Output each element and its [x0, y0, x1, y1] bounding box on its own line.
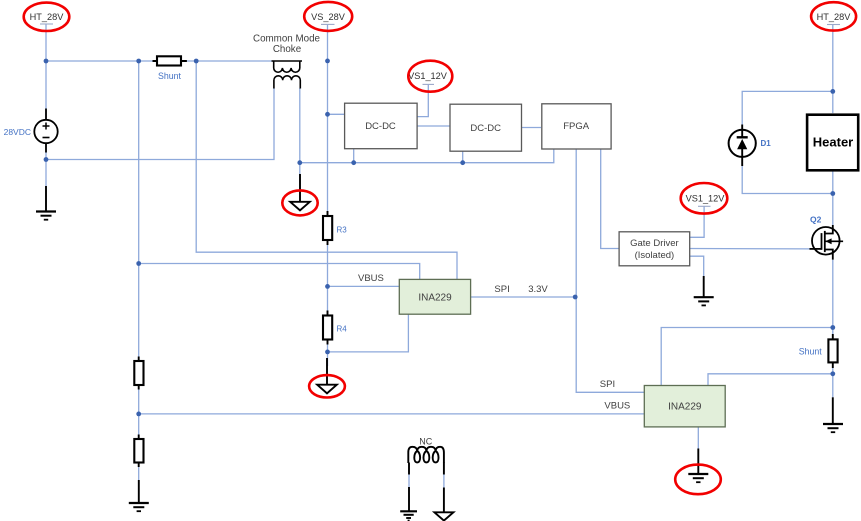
junction node R4 bottom: [325, 350, 330, 355]
junction node VS_28V DC-DC1 branch: [325, 112, 330, 117]
wire source top lead: [45, 61, 47, 120]
source V1 28VDC: [34, 109, 57, 153]
wire source bottom lead: [45, 143, 47, 186]
svg-text:DC-DC: DC-DC: [365, 121, 396, 132]
svg-text:Gate Driver: Gate Driver: [630, 238, 679, 249]
junction node shunt2 bottom: [830, 371, 835, 376]
wire heater bottom to Q2 drain: [832, 171, 834, 225]
ground G3 gate driver: [694, 297, 714, 305]
wire shunt2-minus branch to INA229-2 top pin2: [708, 374, 833, 386]
wire below shunt2: [832, 368, 834, 397]
wire INA229-1 SPI out to FPGA line: [471, 296, 576, 298]
junction node top-left HT_28V: [44, 59, 49, 64]
junction node shunt2 top: [830, 325, 835, 330]
junction node source return: [44, 157, 49, 162]
svg-text:(Isolated): (Isolated): [635, 250, 675, 261]
wire below R4: [327, 345, 329, 367]
junction node x139 sense branch: [136, 261, 141, 266]
wire VS1_12V-2 drop to gate driver: [690, 206, 704, 237]
junction node DC-DC2 0V: [460, 160, 465, 165]
wire D1 branch bottom: [742, 157, 833, 194]
box FPGA: [542, 104, 611, 149]
label Common Mode Choke: [253, 33, 321, 55]
ground T1 choke (triangle): [290, 202, 310, 211]
svg-text:3.3V: 3.3V: [528, 284, 548, 295]
wire left shunt-minus rail x139: [138, 61, 140, 357]
junction node choke-right 0V: [297, 160, 302, 165]
svg-text:D1: D1: [761, 139, 772, 148]
wire top 28V rail left segment: [46, 60, 153, 62]
junction node shunt left: [136, 59, 141, 64]
svg-text:28VDC: 28VDC: [4, 127, 31, 137]
junction node VBUS1 branch: [325, 284, 330, 289]
svg-text:VS1_12V: VS1_12V: [686, 194, 726, 204]
IC INA229 #2: [644, 386, 725, 427]
transistor Q2 MOSFET: [810, 225, 844, 260]
svg-text:R4: R4: [337, 325, 348, 334]
wire DC-DC1 to DC-DC2: [417, 125, 450, 127]
wire HT_28V drop to top rail: [45, 24, 47, 61]
resistor shunt1 (top): [153, 56, 187, 65]
wire VS1_12V drop to DC-DC1: [416, 84, 429, 116]
wire INA229-2 ground: [697, 427, 699, 450]
diode D1 (current regulator): [729, 125, 756, 167]
wire Q2 source down: [832, 260, 834, 334]
wire R4 bottom to INA229 bottom pin: [328, 314, 409, 352]
wire DC-DC1 bottom stub: [353, 149, 355, 163]
ground G2 left bottom: [129, 503, 149, 511]
terminal VS1_12V lower: [681, 183, 728, 214]
wire left ground lead black: [138, 480, 140, 503]
box DC-DC 2: [450, 104, 522, 151]
box DC-DC 1: [345, 103, 418, 149]
ground G1 source: [36, 212, 56, 220]
wire R4 ground lead black: [326, 358, 328, 385]
wire shunt-minus sense to INA229 top pin1: [139, 264, 420, 280]
terminal HT_28V left: [24, 3, 70, 31]
terminal HT_28V right: [811, 2, 856, 30]
svg-text:VS_28V: VS_28V: [311, 12, 346, 22]
wire choke bottom-right leg down: [299, 88, 301, 175]
wire HT_28V right drop: [832, 25, 834, 114]
svg-text:HT_28V: HT_28V: [30, 12, 65, 22]
svg-text:Shunt: Shunt: [799, 346, 823, 356]
svg-text:INA229: INA229: [668, 401, 702, 412]
svg-text:R3: R3: [337, 226, 348, 235]
wire gate driver ground: [690, 256, 704, 278]
resistor R4: [323, 311, 332, 345]
resistor left lower (unnamed): [134, 435, 143, 468]
wire DC-DC2 bottom stub: [462, 151, 464, 163]
wire gate driver to Q2 gate: [690, 248, 810, 250]
svg-text:VBUS: VBUS: [604, 401, 630, 412]
annotation red ellipse on T2: [309, 375, 345, 397]
wire R3 to R4 segment: [327, 245, 329, 311]
wire FPGA pin2 to gate driver: [601, 149, 619, 248]
wire NC left leg: [408, 463, 410, 512]
wire DC-DC2 to FPGA: [522, 127, 542, 129]
common mode choke: [272, 61, 303, 89]
junction node VBUS2 branch: [136, 412, 141, 417]
ground T3 NC right (triangle): [434, 512, 453, 520]
svg-text:NC: NC: [419, 436, 432, 446]
annotation red ellipse on G5: [675, 465, 721, 495]
annotation red ellipse on T1: [282, 190, 317, 215]
terminal VS_28V: [304, 2, 352, 31]
resistor left upper (unnamed): [134, 357, 143, 390]
svg-text:HT_28V: HT_28V: [817, 12, 852, 22]
svg-text:SPI: SPI: [494, 284, 509, 295]
wire below left resistor2: [138, 467, 140, 484]
junction node heater bottom D1: [830, 191, 835, 196]
wire shunt-plus rail x196 to INA229 top pin2: [196, 61, 457, 279]
box heater: [807, 115, 858, 171]
wire NC right leg: [443, 463, 445, 513]
svg-text:Choke: Choke: [273, 44, 302, 55]
ground G4 right: [823, 424, 843, 432]
junction node shunt right: [194, 59, 199, 64]
wire between left resistors: [138, 390, 140, 435]
wire INA229-2 ground lead black: [697, 449, 699, 474]
junction node SPI branch: [573, 295, 578, 300]
svg-text:VBUS: VBUS: [358, 273, 384, 284]
junction node DC-DC1 0V: [351, 160, 356, 165]
wire gate driver ground lead black: [703, 276, 705, 297]
wire top 28V rail right segment to choke: [187, 60, 274, 62]
svg-text:VS1_12V: VS1_12V: [408, 71, 448, 81]
wire source ground lead black: [45, 186, 47, 211]
wire FPGA pin1 down SPI to INA229-2: [576, 149, 644, 392]
inductor NC: [408, 447, 444, 463]
wire VBUS1 branch to INA229 left: [328, 285, 400, 287]
junction node VS_28V top rail: [325, 59, 330, 64]
ground G6 NC left: [400, 511, 417, 520]
wire shunt2-plus branch to INA229-2 top pin1: [661, 328, 833, 386]
svg-text:Heater: Heater: [813, 135, 853, 150]
ground G5 INA229-2: [688, 474, 708, 482]
ground T2 below R4 (triangle): [317, 385, 337, 394]
wire mid 0V rail y163: [300, 149, 554, 163]
svg-text:DC-DC: DC-DC: [470, 123, 501, 134]
IC INA229 #1: [399, 279, 470, 314]
resistor R3: [323, 211, 332, 245]
resistor shunt2 (right): [828, 334, 837, 368]
terminal VS1_12V upper: [408, 61, 452, 92]
svg-text:FPGA: FPGA: [563, 121, 590, 132]
wire return rail from source to choke bottom-left: [46, 88, 274, 160]
wire choke-right ground lead black: [299, 174, 301, 202]
svg-text:SPI: SPI: [600, 379, 615, 390]
wire VS_28V branch to DC-DC1: [328, 113, 345, 115]
wire VBUS2 long rail: [139, 413, 645, 415]
svg-text:Q2: Q2: [810, 214, 822, 224]
wire right ground lead black: [832, 397, 834, 423]
junction node HT_28V right D1 branch: [830, 89, 835, 94]
svg-text:Common Mode: Common Mode: [253, 33, 321, 44]
box Gate Driver (Isolated): [619, 232, 690, 266]
wire VS_28V rail upper: [327, 24, 329, 211]
svg-text:Shunt: Shunt: [158, 71, 182, 81]
svg-text:INA229: INA229: [418, 292, 452, 303]
wire D1 branch top: [742, 91, 833, 129]
